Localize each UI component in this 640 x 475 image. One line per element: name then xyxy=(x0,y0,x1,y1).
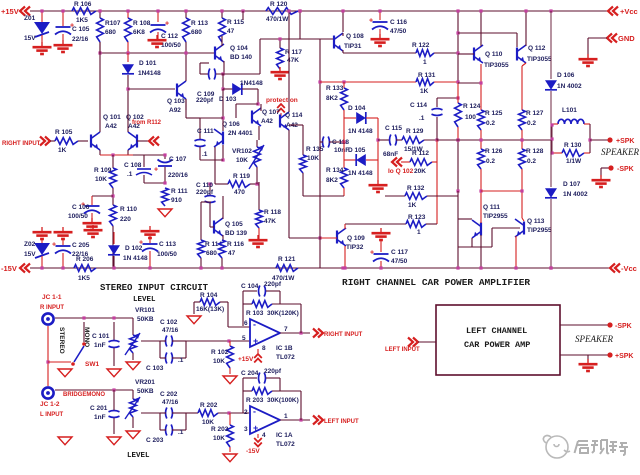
wire jack1 out xyxy=(55,317,133,319)
node -Vcc xyxy=(610,264,615,273)
ground switch xyxy=(58,369,72,377)
switch SW1 xyxy=(47,326,49,386)
wire protection feed xyxy=(260,38,334,40)
svg-text:RIGHT INPUT: RIGHT INPUT xyxy=(324,332,363,338)
svg-text:R 206: R 206 xyxy=(76,256,94,263)
svg-text:TIP2955: TIP2955 xyxy=(527,227,552,234)
svg-text:+SPK: +SPK xyxy=(616,138,634,145)
resistor R120 xyxy=(266,8,298,15)
capacitor C105 xyxy=(62,11,64,26)
wire R107-D101 net xyxy=(99,52,215,54)
svg-text:Q 112: Q 112 xyxy=(528,45,546,52)
svg-text:R INPUT: R INPUT xyxy=(40,305,64,311)
svg-text:C 202: C 202 xyxy=(160,391,178,398)
wire Q103 emitter net xyxy=(185,99,187,118)
transistor Q110 TIP3055 xyxy=(473,48,475,61)
svg-text:R 115: R 115 xyxy=(227,19,244,26)
wire protection column xyxy=(259,39,261,74)
ground -SPK xyxy=(600,168,602,177)
svg-text:0.2: 0.2 xyxy=(527,158,536,165)
svg-text:R107: R107 xyxy=(105,20,121,27)
svg-text:+: + xyxy=(52,242,56,249)
wire R135 net xyxy=(289,124,303,126)
svg-text:680: 680 xyxy=(206,250,217,257)
svg-text:1K: 1K xyxy=(420,88,429,95)
resistor R111 xyxy=(162,188,169,206)
svg-text:5: 5 xyxy=(242,335,246,342)
wire Q105 emitter xyxy=(222,235,224,236)
wire pot2 wiper net xyxy=(141,412,160,414)
ground left speaker xyxy=(587,355,589,362)
svg-text:R 126: R 126 xyxy=(485,148,503,155)
wire pin6 net xyxy=(227,302,229,327)
capacitor C205 xyxy=(62,227,64,231)
resistor R121 xyxy=(276,265,298,272)
svg-text:R 119: R 119 xyxy=(233,173,250,180)
svg-text:220/16: 220/16 xyxy=(168,172,188,179)
node +Vcc xyxy=(608,7,613,16)
ground R102 xyxy=(223,376,237,384)
wire left block vertical xyxy=(319,39,321,196)
junction C112 top xyxy=(156,9,159,12)
svg-text:3: 3 xyxy=(244,426,248,433)
diode D104 xyxy=(344,117,356,119)
svg-text:47/16: 47/16 xyxy=(162,399,179,406)
svg-text:R 124: R 124 xyxy=(463,103,481,110)
svg-text:R 130: R 130 xyxy=(564,142,582,149)
svg-text:C 103: C 103 xyxy=(146,365,164,372)
svg-text:D 101: D 101 xyxy=(139,60,157,67)
junction R109 bottom xyxy=(111,194,114,197)
wire Q103 base net xyxy=(128,88,175,90)
svg-text:30K(120K): 30K(120K) xyxy=(267,310,299,317)
svg-text:15V: 15V xyxy=(24,35,36,42)
svg-text:Z02: Z02 xyxy=(24,241,36,248)
svg-text:50KB: 50KB xyxy=(137,388,154,395)
junction C105 top xyxy=(61,9,64,12)
svg-text:R 134: R 134 xyxy=(326,167,344,174)
svg-text:1nF: 1nF xyxy=(94,342,106,349)
node LEFT INPUT out xyxy=(313,416,318,425)
svg-text:LEVEL: LEVEL xyxy=(133,296,156,304)
svg-text:R 128: R 128 xyxy=(526,148,544,155)
svg-text:D 103: D 103 xyxy=(219,96,237,103)
svg-text:47/50: 47/50 xyxy=(390,28,407,35)
wire block +SPK xyxy=(560,354,608,356)
svg-text:protection: protection xyxy=(266,97,298,104)
svg-text:R 105: R 105 xyxy=(55,129,73,136)
svg-text:LEVEL: LEVEL xyxy=(127,452,150,460)
svg-text:2: 2 xyxy=(244,409,248,416)
junction output xyxy=(550,123,553,126)
wire emitter join xyxy=(99,150,101,155)
svg-text:Q 110: Q 110 xyxy=(485,51,503,58)
svg-text:VR101: VR101 xyxy=(135,307,155,314)
svg-text:R 120: R 120 xyxy=(270,1,288,8)
svg-text:SPEAKER: SPEAKER xyxy=(575,334,613,344)
svg-text:R 108: R 108 xyxy=(133,20,151,27)
svg-text:10K: 10K xyxy=(307,155,319,162)
wire IC1A output xyxy=(280,419,310,421)
wire Q110 collector xyxy=(480,11,482,46)
svg-text:Q 105: Q 105 xyxy=(225,221,243,228)
resistor R113 xyxy=(185,11,187,18)
svg-text:C 110: C 110 xyxy=(196,182,213,189)
svg-text:10K: 10K xyxy=(213,358,225,365)
resistor R132 xyxy=(385,195,405,197)
resistor R123 xyxy=(345,223,406,225)
svg-text:47/50: 47/50 xyxy=(391,258,408,265)
svg-text:R 125: R 125 xyxy=(485,110,503,117)
junction R113 top xyxy=(184,9,187,12)
svg-text:-SPK: -SPK xyxy=(617,166,634,173)
wire Q114 collector xyxy=(288,11,290,112)
junction D101 bottom xyxy=(126,87,129,90)
wire Q106 emitter xyxy=(214,147,216,184)
svg-text:TIP32: TIP32 xyxy=(346,244,364,251)
svg-text:8: 8 xyxy=(262,345,266,352)
resistor R134 xyxy=(343,160,345,168)
svg-text:R 203: R 203 xyxy=(211,426,229,433)
svg-text:+15V: +15V xyxy=(238,356,254,363)
svg-text:R 117: R 117 xyxy=(285,49,302,56)
svg-text:910: 910 xyxy=(171,197,182,204)
resistor R124 xyxy=(457,83,459,103)
svg-text:1K5: 1K5 xyxy=(76,17,88,24)
svg-text:C 105: C 105 xyxy=(72,26,90,33)
resistor R110 xyxy=(110,205,117,226)
svg-text:220: 220 xyxy=(120,216,131,223)
watermark text xyxy=(575,0,629,455)
capacitor C111 xyxy=(200,117,223,119)
resistor R125 xyxy=(478,110,485,130)
zener Z02 xyxy=(41,227,43,231)
transistor Q101 A42 xyxy=(90,135,92,148)
ground Z01 xyxy=(41,42,43,46)
resistor R122 xyxy=(416,50,434,57)
svg-text:7: 7 xyxy=(284,326,288,333)
svg-text:1N 4148: 1N 4148 xyxy=(348,128,373,135)
wire Q111 net xyxy=(458,218,472,220)
resistor R131 row xyxy=(320,81,416,83)
feedback R103 xyxy=(242,291,244,326)
svg-text:A42: A42 xyxy=(105,123,117,130)
wire +15V top bus xyxy=(30,10,607,12)
svg-text:8K2: 8K2 xyxy=(326,177,338,184)
resistor R133 xyxy=(343,82,345,88)
svg-text:100/50: 100/50 xyxy=(161,42,181,49)
svg-text:Q 108: Q 108 xyxy=(346,33,364,40)
svg-text:1N 4148: 1N 4148 xyxy=(348,170,373,177)
resistor R116 xyxy=(222,236,224,240)
svg-text:10nF: 10nF xyxy=(334,147,349,154)
svg-text:Q 107: Q 107 xyxy=(262,109,280,116)
svg-text:+: + xyxy=(139,240,143,247)
capacitor C115 xyxy=(378,139,390,141)
svg-text:C 115: C 115 xyxy=(385,125,402,132)
wire gnd stub xyxy=(588,37,607,39)
ground GND xyxy=(587,54,589,58)
svg-text:C 106: C 106 xyxy=(72,204,90,211)
svg-text:VR102: VR102 xyxy=(232,148,252,155)
svg-text:A92: A92 xyxy=(169,107,181,114)
ground R203 xyxy=(223,454,237,462)
svg-text:220pf: 220pf xyxy=(264,281,282,288)
svg-text:L INPUT: L INPUT xyxy=(40,412,64,418)
svg-text:1N4148: 1N4148 xyxy=(138,70,161,77)
resistor R128 xyxy=(521,140,523,149)
svg-text:1K5: 1K5 xyxy=(78,275,90,282)
svg-text:STEREO: STEREO xyxy=(58,327,65,354)
svg-text:C 116: C 116 xyxy=(390,19,407,26)
svg-text:LEFT INPUT: LEFT INPUT xyxy=(385,347,420,353)
resistor R202 xyxy=(186,412,198,414)
svg-text:+: + xyxy=(369,18,373,25)
wire block -SPK xyxy=(560,324,608,326)
svg-text:VR201: VR201 xyxy=(135,379,155,386)
resistor R131 xyxy=(416,79,434,86)
potentiometer VR201 xyxy=(132,390,134,399)
svg-text:47/16: 47/16 xyxy=(162,327,179,334)
svg-text:C 108: C 108 xyxy=(124,162,142,169)
capacitor C108 xyxy=(143,155,145,167)
svg-text:2N 4401: 2N 4401 xyxy=(228,130,253,137)
wire Q110 base xyxy=(458,53,474,55)
wire Q108 emitter / R122 row xyxy=(342,50,344,53)
svg-text:C 201: C 201 xyxy=(90,405,108,412)
wire Q106 column xyxy=(222,89,224,131)
capacitor C107 C108 network xyxy=(133,154,165,156)
svg-text:4: 4 xyxy=(262,432,266,439)
svg-text:1N4148: 1N4148 xyxy=(240,80,263,87)
svg-text:1N 4002: 1N 4002 xyxy=(563,191,588,198)
svg-text:TL072: TL072 xyxy=(276,354,295,361)
svg-text:470/1W: 470/1W xyxy=(266,16,289,23)
capacitor C112 xyxy=(157,11,159,22)
resistor R114 xyxy=(200,202,202,240)
node -15V opamp xyxy=(254,438,262,442)
resistor R129 xyxy=(402,137,424,144)
junction R107 top xyxy=(98,9,101,12)
wire IC1B output xyxy=(280,332,310,334)
node -SPK xyxy=(601,167,609,169)
svg-text:C 107: C 107 xyxy=(169,156,187,163)
svg-text:C 111: C 111 xyxy=(197,128,214,135)
svg-text:C 102: C 102 xyxy=(160,319,178,326)
svg-text:Q 114: Q 114 xyxy=(285,112,303,119)
transistor Q104 BD140 xyxy=(214,47,216,60)
wire Q109 base xyxy=(320,237,337,239)
wire jack2 out xyxy=(55,389,133,391)
ground C116 xyxy=(379,34,381,38)
transistor Q107 A42 xyxy=(251,111,253,124)
wire Q105 collector xyxy=(222,196,224,219)
wire mono drop xyxy=(83,322,85,342)
node GND xyxy=(607,34,612,43)
svg-text:Q 109: Q 109 xyxy=(347,235,365,242)
transistor Q109 TIP32 xyxy=(336,231,338,244)
svg-text:+15V: +15V xyxy=(1,7,19,16)
wire Q114 emitter column xyxy=(288,130,290,238)
resistor R107 xyxy=(99,11,101,18)
diode D101 xyxy=(127,53,129,62)
resistor R105 xyxy=(50,140,55,142)
svg-text:100/50: 100/50 xyxy=(68,213,88,220)
svg-text:Q 111: Q 111 xyxy=(483,204,500,211)
transistor Q106 2N4401 xyxy=(222,132,224,145)
capacitor C103 xyxy=(166,353,167,364)
svg-text:STEREO INPUT CIRCUIT: STEREO INPUT CIRCUIT xyxy=(100,283,209,293)
resistor R126 xyxy=(480,140,482,149)
svg-text:-Vcc: -Vcc xyxy=(621,264,637,273)
svg-text:R 104: R 104 xyxy=(200,292,218,299)
svg-text:47: 47 xyxy=(227,28,235,35)
svg-text:220pf: 220pf xyxy=(196,97,214,104)
svg-text:R 127: R 127 xyxy=(526,110,544,117)
wire Q109 collector xyxy=(344,224,346,229)
svg-text:C 104: C 104 xyxy=(241,283,259,290)
svg-text:1N 4148: 1N 4148 xyxy=(123,255,148,262)
svg-text:10K: 10K xyxy=(213,435,225,442)
ground R111 xyxy=(158,209,172,217)
svg-text:C 204: C 204 xyxy=(241,370,259,377)
svg-text:47K: 47K xyxy=(264,218,276,225)
svg-text:1: 1 xyxy=(423,59,427,66)
svg-text:D 107: D 107 xyxy=(563,181,581,188)
node Io Q102 xyxy=(392,158,397,167)
svg-text:R 112: R 112 xyxy=(412,150,429,157)
diode D103 xyxy=(222,74,224,89)
svg-text:.1: .1 xyxy=(127,171,133,178)
svg-text:R 116: R 116 xyxy=(227,241,244,248)
svg-text:R 122: R 122 xyxy=(412,42,430,49)
svg-text:TIP3055: TIP3055 xyxy=(484,62,509,69)
resistor R109 xyxy=(112,155,114,168)
svg-text:C 114: C 114 xyxy=(410,102,427,109)
resistor R117 xyxy=(279,39,281,48)
svg-text:R 123: R 123 xyxy=(408,214,426,221)
capacitor C203 xyxy=(166,425,167,436)
svg-text:BRIDGEMONO: BRIDGEMONO xyxy=(63,392,105,398)
capacitor C109 xyxy=(200,73,208,75)
resistor R206 xyxy=(74,265,96,272)
svg-text:+SPK: +SPK xyxy=(615,353,633,360)
svg-text:15V: 15V xyxy=(24,251,36,258)
svg-text:50KB: 50KB xyxy=(137,316,154,323)
svg-text:BD 140: BD 140 xyxy=(230,54,252,61)
ground VR101 xyxy=(126,362,140,370)
wire Q112 collector xyxy=(525,11,527,46)
capacitor C113 xyxy=(149,226,151,230)
feedback R203 30K xyxy=(242,378,244,413)
svg-text:IC 1B: IC 1B xyxy=(276,345,293,352)
diode D107 xyxy=(550,140,552,187)
svg-text:10K: 10K xyxy=(202,419,214,426)
svg-text:68nF: 68nF xyxy=(383,151,398,158)
svg-text:A42: A42 xyxy=(261,118,273,125)
ground C201 xyxy=(107,437,121,445)
resistor R108 xyxy=(127,11,129,18)
svg-text:220pf: 220pf xyxy=(264,368,282,375)
svg-text:1: 1 xyxy=(284,413,288,420)
ground VR201 xyxy=(126,431,140,439)
block LEFT CHANNEL CAR POWER AMP xyxy=(436,305,560,375)
connector JC1-2 xyxy=(42,387,53,398)
junction R108 top xyxy=(126,9,129,12)
svg-text:Q 113: Q 113 xyxy=(527,218,545,225)
ground R117 xyxy=(279,67,281,71)
resistor R119 xyxy=(215,183,228,185)
resistor R102 xyxy=(227,346,234,368)
transistor Q108 TIP31 xyxy=(342,11,344,32)
wire Q113 net xyxy=(521,191,523,218)
wire Q112 emitter xyxy=(522,63,526,66)
svg-text:-15V: -15V xyxy=(246,448,260,455)
arrow protection xyxy=(277,104,285,108)
transistor Q103 A92 xyxy=(176,84,178,97)
svg-text:C 117: C 117 xyxy=(391,249,408,256)
svg-text:6K8: 6K8 xyxy=(133,29,145,36)
svg-text:220pf: 220pf xyxy=(196,189,214,196)
svg-text:+: + xyxy=(370,250,374,257)
svg-text:-: - xyxy=(253,407,256,417)
svg-text:470: 470 xyxy=(234,189,245,196)
capacitor C110 xyxy=(209,184,211,195)
diode D106 xyxy=(550,11,552,79)
capacitor C201 xyxy=(109,411,120,412)
wire Q109 emitter xyxy=(344,246,346,268)
svg-text:SW1: SW1 xyxy=(85,361,99,368)
wire Q102 base xyxy=(137,140,148,142)
wire Q102 collector xyxy=(127,98,129,132)
svg-text:TIP2955: TIP2955 xyxy=(483,213,508,220)
svg-text:Q 101: Q 101 xyxy=(103,114,121,121)
svg-text:Q 103: Q 103 xyxy=(167,98,185,105)
svg-text:R 121: R 121 xyxy=(278,256,296,263)
svg-text:1K: 1K xyxy=(408,202,417,209)
transistor Q105 BD139 xyxy=(213,221,215,234)
svg-text:C 205: C 205 xyxy=(72,242,90,249)
svg-text:0.2: 0.2 xyxy=(486,120,495,127)
svg-text:R 118: R 118 xyxy=(264,209,281,216)
svg-text:.1: .1 xyxy=(202,151,208,158)
svg-text:GND: GND xyxy=(618,34,635,43)
op-amp IC1B xyxy=(250,319,280,347)
svg-text:1N 4002: 1N 4002 xyxy=(557,83,582,90)
zener Z01 xyxy=(41,11,43,22)
svg-text:SPEAKER: SPEAKER xyxy=(601,147,639,157)
svg-text:IC 1A: IC 1A xyxy=(276,432,293,439)
svg-text:RIGHT INPUT: RIGHT INPUT xyxy=(2,141,41,147)
svg-text:Q 104: Q 104 xyxy=(230,45,248,52)
resistor R130 xyxy=(562,150,584,157)
ground R118 xyxy=(257,235,259,239)
svg-text:680: 680 xyxy=(105,29,116,36)
svg-text:8K2: 8K2 xyxy=(326,95,338,102)
junction R115 top xyxy=(220,9,223,12)
svg-text:R 133: R 133 xyxy=(326,85,344,92)
svg-text:C 101: C 101 xyxy=(92,333,110,340)
svg-text:JC 1-2: JC 1-2 xyxy=(40,401,60,408)
svg-text:-: - xyxy=(253,320,256,330)
svg-text:RIGHT CHANNEL CAR POWER AMPLIF: RIGHT CHANNEL CAR POWER AMPLIFIER xyxy=(342,277,530,288)
ground C112 xyxy=(156,35,158,39)
wire to pin5 xyxy=(186,340,249,342)
svg-text:R 113: R 113 xyxy=(191,20,208,27)
svg-text:R 132: R 132 xyxy=(407,185,425,192)
svg-text:C 203: C 203 xyxy=(146,437,164,444)
svg-text:680: 680 xyxy=(191,29,202,36)
